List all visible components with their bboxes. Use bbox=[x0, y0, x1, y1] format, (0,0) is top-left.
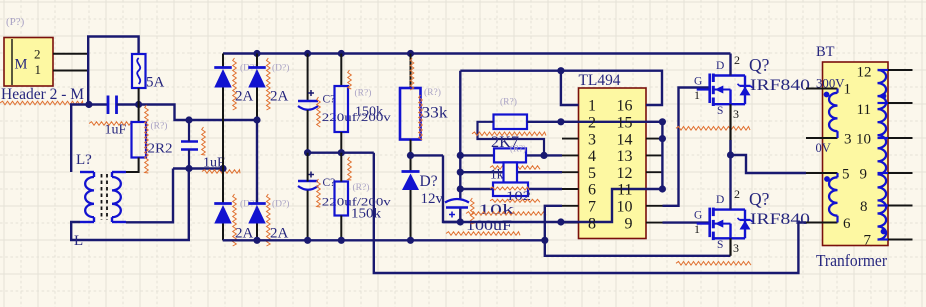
transistor Q1 IRF840 symbol bbox=[697, 74, 753, 107]
svg-text:10: 10 bbox=[856, 132, 871, 148]
label 2K7 bbox=[491, 134, 519, 151]
resistor R7 vertical between R6 and R8 bbox=[504, 162, 518, 182]
lead D4 bottom bbox=[256, 224, 258, 241]
label G (Q2) bbox=[694, 210, 702, 222]
junction dot zener at bottom bus bbox=[407, 237, 414, 244]
BT right pins 12,11,10,9,8,7 bbox=[888, 70, 913, 240]
capacitor C3 220uf/200v bbox=[298, 90, 318, 110]
lead C2 top bbox=[188, 120, 190, 142]
faint designator (R?) R6 bbox=[510, 144, 526, 154]
BT winding 5-6 bbox=[829, 173, 837, 223]
junction dot bus at R3 bbox=[338, 237, 345, 244]
node A dot bbox=[85, 101, 92, 108]
BT polarity dot pin11 bbox=[881, 93, 887, 99]
transistor Q2 IRF840 symbol bbox=[697, 208, 753, 241]
svg-text:1: 1 bbox=[844, 82, 852, 98]
resistor R5 2K7 bbox=[494, 115, 528, 130]
junction dot rail at R2 bbox=[338, 50, 345, 57]
U1 right pin numbers bbox=[617, 98, 633, 233]
IC U1 TL494 body bbox=[579, 88, 647, 239]
svg-text:2A: 2A bbox=[270, 88, 289, 104]
ERC squiggle C4 bbox=[317, 179, 321, 207]
svg-text:L: L bbox=[74, 233, 83, 249]
junction dot V3 row6 bbox=[457, 185, 464, 192]
inductor L1 right coil bbox=[112, 172, 126, 222]
choke core dashed lines bbox=[102, 174, 108, 220]
faint designator (D?) D4 bbox=[272, 199, 289, 210]
ERC squiggle D2 bbox=[267, 58, 271, 110]
junction dot pin7 vertical at bus bbox=[541, 237, 548, 244]
wire 12v node right bbox=[411, 154, 444, 156]
svg-text:150k: 150k bbox=[355, 104, 383, 119]
svg-text:D: D bbox=[716, 60, 724, 72]
svg-text:2: 2 bbox=[34, 47, 41, 62]
junction dot midpoint at C3/C4 bbox=[304, 149, 311, 156]
svg-text:8: 8 bbox=[860, 199, 868, 215]
wire row8 over chip bbox=[443, 189, 662, 222]
ERC squiggle vertical left of 10k bbox=[471, 198, 475, 224]
wire Q1 source to Q2 drain node bbox=[729, 140, 731, 155]
ERC squiggle R4 bbox=[410, 58, 414, 90]
svg-text:Header 2 - M: Header 2 - M bbox=[1, 86, 84, 103]
faint designator (D?) D1 bbox=[240, 63, 257, 74]
junction dot C2 top bbox=[185, 116, 192, 123]
faint designator (D?) D3 bbox=[240, 199, 257, 210]
label C? (C4) bbox=[323, 177, 336, 189]
label Header 2 - M bbox=[1, 86, 84, 103]
svg-text:(R?): (R?) bbox=[355, 88, 372, 99]
ERC squiggle under header label bbox=[0, 101, 83, 105]
svg-text:IRF840: IRF840 bbox=[750, 211, 810, 228]
resistor R3 150k bbox=[335, 182, 349, 216]
ERC squiggle D3 bbox=[233, 194, 237, 246]
wire AC1 down right column bbox=[256, 120, 258, 204]
label Q? (Q2) bbox=[749, 189, 770, 209]
ERC squiggle on R8 bbox=[490, 187, 529, 190]
junction dot rail at D2 bbox=[253, 50, 260, 57]
U1 right pins 16-9 bbox=[646, 105, 663, 223]
faint designator (R?) R4 bbox=[424, 87, 441, 98]
label 2A (D2) bbox=[270, 88, 289, 104]
svg-text:2R2: 2R2 bbox=[148, 142, 173, 157]
junction dot row8 at pin8 bbox=[557, 218, 564, 225]
label 100uF bbox=[466, 218, 512, 234]
label D (Q1) bbox=[716, 60, 724, 72]
junction dot bus at C4 bbox=[304, 237, 311, 244]
junction dot row2 at pin2 bbox=[557, 118, 564, 125]
wire V3 vcc vertical bbox=[459, 71, 461, 199]
diode D4 2A bbox=[248, 204, 266, 224]
junction dot rail at C3 bbox=[304, 50, 311, 57]
connector pin 1 bbox=[53, 70, 88, 72]
BT secondary winding 12-7 bbox=[878, 70, 887, 240]
BT pin 3 bbox=[806, 137, 838, 139]
faint designator (R?) of 2R2 bbox=[151, 121, 168, 132]
label IRF840 (Q1) bbox=[750, 77, 810, 94]
faint designator (P?) bbox=[6, 16, 25, 28]
ERC squiggle D1 bbox=[233, 58, 237, 110]
svg-text:5: 5 bbox=[588, 165, 596, 182]
svg-text:(R?): (R?) bbox=[424, 87, 441, 98]
label 150k (R3) bbox=[351, 207, 381, 222]
svg-text:3: 3 bbox=[733, 241, 739, 255]
junction dot 12v node bbox=[407, 152, 414, 159]
lead R2 top bbox=[340, 54, 342, 87]
ERC squiggle under 102 bbox=[490, 199, 540, 202]
lead C4 bottom bbox=[307, 191, 309, 241]
svg-text:TL494: TL494 bbox=[579, 72, 621, 89]
resistor R8 102 in row6 bbox=[493, 183, 528, 197]
lead R3 bottom bbox=[340, 216, 342, 241]
label 1k bbox=[490, 167, 504, 182]
wire Q2 drain from node bbox=[729, 155, 731, 210]
wire caps midpoint bbox=[308, 151, 374, 153]
U1 left pin numbers bbox=[588, 98, 596, 233]
svg-text:5: 5 bbox=[842, 167, 850, 183]
label TL494 bbox=[579, 72, 621, 89]
lead Q1 source down bbox=[729, 104, 731, 155]
label 1uF (C1) bbox=[105, 123, 127, 138]
svg-text:16: 16 bbox=[617, 98, 633, 115]
svg-text:9: 9 bbox=[625, 215, 633, 232]
fuse F1 5A bbox=[132, 54, 146, 88]
ERC squiggle above 1uF label bbox=[89, 122, 132, 126]
lead C2 bottom bbox=[188, 150, 190, 169]
svg-text:8: 8 bbox=[588, 215, 596, 232]
svg-text:(D?): (D?) bbox=[272, 63, 289, 74]
label pin3 (Q1) bbox=[733, 107, 739, 121]
ERC squiggle C3 bbox=[317, 97, 321, 127]
svg-text:(R?): (R?) bbox=[353, 182, 370, 193]
junction dot V3 row4 bbox=[457, 152, 464, 159]
resistor R4 33k bbox=[400, 88, 421, 140]
label 102 bbox=[506, 189, 531, 203]
label 150k (R2) bbox=[355, 104, 383, 119]
BT polarity dot pin5 bbox=[824, 176, 830, 182]
capacitor C5 100uF bbox=[445, 199, 469, 218]
svg-text:5A: 5A bbox=[146, 75, 165, 91]
wire AC2 node to bridge bbox=[173, 167, 223, 169]
ERC squiggle under 1k bbox=[490, 166, 540, 170]
BT secondary taps bbox=[878, 70, 889, 240]
faint designator (R?) R5 bbox=[500, 97, 517, 108]
svg-text:1: 1 bbox=[694, 222, 700, 236]
resistor R2 150k bbox=[335, 86, 349, 132]
junction dot midpoint at R2/R3 bbox=[338, 149, 345, 156]
lead bridge D1 top bbox=[222, 54, 224, 68]
lead D3 bottom bbox=[222, 224, 224, 241]
ERC squiggle under Q1 bbox=[676, 127, 750, 131]
wire right vertical pins 15-14-11 bbox=[661, 122, 663, 189]
svg-text:1: 1 bbox=[588, 98, 596, 115]
label L? bbox=[76, 152, 92, 168]
capacitor C2 1uF plates bbox=[181, 142, 198, 150]
svg-text:6: 6 bbox=[843, 216, 851, 232]
label L bbox=[74, 233, 83, 249]
wire row4 to pin 4 bbox=[460, 154, 562, 156]
svg-text:2A: 2A bbox=[235, 225, 254, 241]
svg-text:12: 12 bbox=[617, 165, 633, 182]
label G (Q1) bbox=[694, 76, 702, 88]
wire 12v node drop V2 bbox=[443, 155, 460, 222]
junction dot loop at pin1 drop bbox=[557, 67, 564, 74]
svg-text:(R?): (R?) bbox=[151, 121, 168, 132]
svg-text:11: 11 bbox=[857, 102, 871, 118]
label 220uf/200v (C4) bbox=[322, 195, 391, 209]
faint designator (R?) R2 bbox=[355, 88, 372, 99]
junction dot bus at D4 bbox=[253, 237, 260, 244]
ERC squiggle under 2K7 bbox=[472, 132, 546, 136]
faint designator (D?) D2 bbox=[272, 63, 289, 74]
svg-text:7: 7 bbox=[588, 199, 596, 216]
svg-text:6: 6 bbox=[588, 182, 596, 199]
wire top rail bbox=[223, 52, 731, 54]
svg-text:G: G bbox=[694, 210, 702, 222]
svg-text:12v: 12v bbox=[421, 191, 444, 207]
junction dot AC2 at C2 bbox=[185, 165, 192, 172]
wire header pins to fuse top bbox=[88, 37, 138, 105]
wire choke right bottom up to AC2 wire bbox=[126, 169, 173, 223]
label pin2 (Q1) bbox=[734, 53, 740, 67]
junction dot AC1 at bridge right column bbox=[253, 116, 260, 123]
label 2A (D1) bbox=[235, 88, 254, 104]
svg-text:2A: 2A bbox=[235, 88, 254, 104]
label Q? (Q1) bbox=[749, 55, 770, 75]
BT pin 1 bbox=[806, 88, 838, 90]
wire node A to choke left top bbox=[71, 105, 88, 173]
zener diode D5 12v bbox=[402, 172, 420, 191]
U1 left pins 1-8 bbox=[562, 105, 579, 223]
wire R5 right to pin2 and over chip to pin15 bbox=[527, 121, 662, 123]
ERC squiggle under 10k bbox=[466, 212, 546, 216]
lead R3 top bbox=[340, 153, 342, 182]
ERC squiggle D4 bbox=[267, 194, 271, 246]
lead R2 bottom bbox=[340, 132, 342, 153]
lead Q2 source to ground wire bbox=[729, 238, 731, 256]
diode D1 2A bbox=[214, 68, 232, 88]
ERC squiggle zener bbox=[419, 95, 423, 140]
wire pin7 to ground bus bbox=[545, 206, 731, 256]
svg-text:Tranformer: Tranformer bbox=[816, 251, 887, 270]
svg-text:Q?: Q? bbox=[749, 55, 770, 75]
lead D2 top bbox=[256, 54, 258, 68]
wire drop to pin 1 bbox=[561, 71, 579, 105]
label 220uf/200v (C3) bbox=[322, 110, 391, 124]
resistor R6 in row4 bbox=[494, 148, 526, 162]
svg-text:2: 2 bbox=[734, 187, 740, 201]
wire C1 right to bridge AC1 bbox=[117, 105, 258, 121]
svg-text:4: 4 bbox=[588, 148, 596, 165]
label Tranformer bbox=[816, 251, 887, 270]
svg-text:33k: 33k bbox=[422, 105, 448, 122]
lead fuse bottom to 2R2 bbox=[138, 88, 140, 122]
diode D2 2A bbox=[248, 68, 266, 88]
label S (Q1) bbox=[717, 105, 723, 117]
wire rail to Q1 drain bbox=[729, 54, 731, 76]
svg-text:2: 2 bbox=[734, 53, 740, 67]
faint designator (R?) R3 bbox=[353, 182, 370, 193]
net label 0V bbox=[816, 141, 831, 155]
wire V3 below 100uF bbox=[459, 208, 461, 223]
svg-text:10: 10 bbox=[617, 199, 633, 216]
connector pin 2 bbox=[53, 53, 88, 55]
wire choke left bottom to L bus bbox=[71, 169, 189, 241]
svg-text:150k: 150k bbox=[351, 207, 381, 222]
connector JP Header 2-M body bbox=[4, 38, 53, 87]
svg-text:IRF840: IRF840 bbox=[750, 77, 810, 94]
wire bridge bottom bus bbox=[223, 239, 545, 241]
svg-text:(R?): (R?) bbox=[500, 97, 517, 108]
label IRF840 (Q2) bbox=[750, 211, 810, 228]
label 5A bbox=[146, 75, 165, 91]
BT polarity dot pin7 bbox=[881, 229, 887, 235]
label D? bbox=[420, 173, 438, 190]
junction dot Q1/Q2 node bbox=[727, 151, 734, 158]
ERC squiggle vertical right of fuse column bbox=[145, 105, 149, 173]
wire vcc loop over U1 bbox=[460, 71, 662, 105]
junction dot rail at R4 bbox=[407, 50, 414, 57]
label 10k bbox=[478, 202, 515, 218]
svg-text:D: D bbox=[716, 194, 724, 206]
junction dot V3 row5 bbox=[457, 169, 464, 176]
svg-text:2A: 2A bbox=[270, 225, 289, 241]
ERC squiggle under 100uF bbox=[446, 232, 520, 236]
wire pin10 to upper gate bbox=[663, 88, 710, 206]
junction dot V3 bottom bbox=[457, 218, 464, 225]
label 2R2 bbox=[148, 142, 173, 157]
svg-text:7: 7 bbox=[864, 233, 872, 249]
capacitor C4 220uf/200v bbox=[298, 172, 318, 190]
label 1uF (C2) bbox=[203, 156, 225, 171]
svg-text:Q?: Q? bbox=[749, 189, 770, 209]
junction dot fuse/2R2 tap bbox=[135, 101, 142, 108]
lead 2R2 bottom to choke right coil bbox=[112, 158, 139, 173]
junction dot pin15 bbox=[659, 118, 666, 125]
BT pin 5 bbox=[806, 172, 838, 174]
junction dot AC2 at bridge left column bbox=[219, 165, 226, 172]
BT pin 6 bbox=[806, 222, 838, 224]
svg-text:(P?): (P?) bbox=[6, 16, 25, 28]
svg-text:S: S bbox=[717, 105, 723, 117]
wire Q1/Q2 node to transformer pin5 bbox=[731, 155, 807, 173]
BT primary winding 1-3 bbox=[829, 89, 837, 139]
transformer BT body bbox=[823, 62, 889, 246]
wire node A to C1 bbox=[88, 103, 108, 105]
junction dot pin14 bbox=[659, 135, 666, 142]
BT polarity dot pin1 bbox=[824, 92, 830, 98]
capacitor C1 1uF plates bbox=[108, 96, 117, 115]
svg-text:M: M bbox=[15, 57, 28, 73]
ERC squiggle R2 bbox=[348, 70, 352, 89]
label pin2 (Q2) bbox=[734, 187, 740, 201]
svg-text:15: 15 bbox=[617, 115, 633, 132]
wire row6 to pin 6 bbox=[460, 188, 562, 190]
svg-text:(D?): (D?) bbox=[272, 199, 289, 210]
label 12v bbox=[421, 191, 444, 207]
net label 300V bbox=[816, 77, 845, 91]
lead D1 to D3 bbox=[222, 88, 224, 204]
inductor L1 common-mode choke left coil bbox=[80, 172, 94, 222]
BT left pin numbers bbox=[842, 82, 852, 233]
svg-text:1: 1 bbox=[694, 88, 700, 102]
svg-text:G: G bbox=[694, 76, 702, 88]
junction dot jog at row4 bbox=[540, 152, 547, 159]
label D (Q2) bbox=[716, 194, 724, 206]
ERC squiggle under 1uF C2 bbox=[202, 170, 240, 174]
svg-text:(R?): (R?) bbox=[510, 144, 526, 154]
lead C4 top bbox=[307, 153, 309, 182]
lead D2 to AC1 bbox=[256, 88, 258, 121]
lead R4 top bbox=[410, 54, 412, 89]
svg-text:3: 3 bbox=[588, 131, 596, 148]
svg-text:3: 3 bbox=[733, 107, 739, 121]
resistor R1 2R2 bbox=[132, 122, 147, 158]
lead C3 top bbox=[307, 54, 309, 102]
svg-text:C?: C? bbox=[323, 94, 336, 106]
label pin3 (Q2) bbox=[733, 241, 739, 255]
svg-text:3: 3 bbox=[844, 132, 852, 148]
BT right pin numbers bbox=[856, 65, 872, 249]
svg-text:D?: D? bbox=[420, 173, 438, 190]
label S (Q2) bbox=[717, 239, 723, 251]
label pin1 (Q1) bbox=[694, 88, 700, 102]
svg-text:BT: BT bbox=[816, 44, 835, 60]
lead C3 bottom bbox=[307, 110, 309, 153]
svg-text:13: 13 bbox=[617, 148, 633, 165]
label 2A (D4) bbox=[270, 225, 289, 241]
lead R5 left jog to row4 bbox=[478, 122, 545, 156]
svg-text:2: 2 bbox=[588, 115, 596, 132]
ERC squiggle vertical left of C2 bbox=[202, 127, 206, 155]
svg-text:1k: 1k bbox=[490, 167, 504, 182]
label C? (C3) bbox=[323, 94, 336, 106]
label 2A (D3) bbox=[235, 225, 254, 241]
svg-text:9: 9 bbox=[860, 167, 868, 183]
junction dot pin11 bbox=[659, 185, 666, 192]
svg-text:C?: C? bbox=[323, 177, 336, 189]
svg-text:L?: L? bbox=[76, 152, 92, 168]
svg-text:0V: 0V bbox=[816, 141, 831, 155]
wire row5 to pin 5 bbox=[460, 171, 562, 173]
ERC squiggle under Q2 bbox=[676, 262, 751, 266]
label 33k bbox=[422, 105, 448, 122]
lead zener bottom bbox=[410, 190, 412, 240]
wire pin9 to lower gate bbox=[663, 221, 710, 223]
svg-text:14: 14 bbox=[617, 131, 633, 148]
diode D3 2A bbox=[214, 204, 232, 224]
wire midpoint down to lower bus and transformer pin 6 bbox=[374, 153, 806, 273]
svg-text:S: S bbox=[717, 239, 723, 251]
label BT bbox=[816, 44, 835, 60]
lead R4 bottom to zener bbox=[410, 140, 412, 172]
svg-text:1: 1 bbox=[35, 62, 42, 77]
svg-text:12: 12 bbox=[857, 65, 872, 81]
svg-text:11: 11 bbox=[617, 182, 632, 199]
ERC squiggle R3 bbox=[348, 157, 352, 180]
label pin1 (Q2) bbox=[694, 222, 700, 236]
